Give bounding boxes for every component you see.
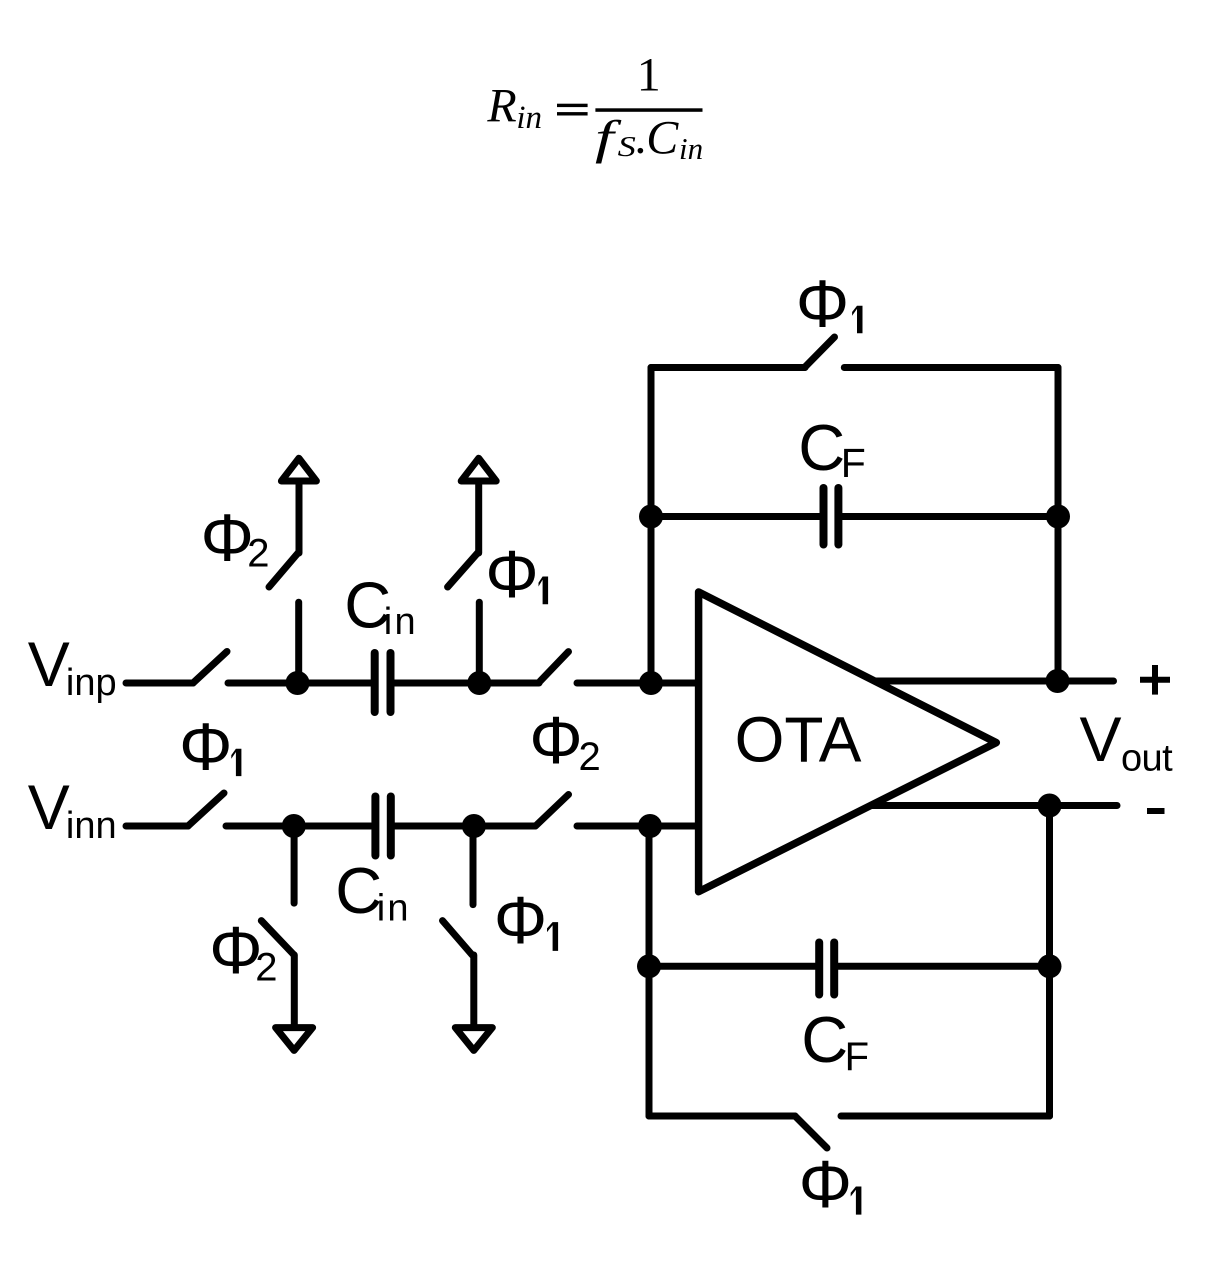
wire S4n to VCM symbol bbox=[470, 955, 477, 1025]
label phi2 (S2p) bbox=[529, 703, 600, 779]
svg-text:in: in bbox=[377, 888, 411, 930]
label phi1 (S4p) bbox=[485, 537, 548, 612]
svg-text:in: in bbox=[516, 100, 542, 136]
wire S2n to OTA input- bbox=[577, 823, 702, 830]
wire Cin to S2n bbox=[395, 823, 535, 830]
wire stub node E down bbox=[470, 826, 477, 905]
svg-text:in: in bbox=[384, 601, 418, 643]
VCM symbol (up arrow) left bbox=[281, 458, 316, 481]
svg-text:C: C bbox=[798, 411, 845, 484]
label phi1 (S1p) bbox=[179, 710, 241, 785]
wire CF bottom left vertical bbox=[646, 826, 653, 1116]
svg-text:F: F bbox=[841, 440, 866, 486]
node J (output- / CF) bbox=[1038, 794, 1062, 818]
node K (CF bottom left) bbox=[637, 954, 661, 978]
wire CF bottom cap rail right bbox=[838, 963, 1049, 970]
svg-text:Φ: Φ bbox=[796, 266, 849, 341]
svg-text:inp: inp bbox=[66, 662, 117, 704]
svg-text:Φ: Φ bbox=[529, 703, 582, 778]
label Vout bbox=[1080, 705, 1174, 780]
capacitor CF bottom bbox=[819, 943, 834, 995]
switch S1n blade (phi1) bbox=[188, 793, 224, 826]
switch S1p blade (phi1) bbox=[193, 652, 227, 684]
switch S2n blade (phi2) bbox=[536, 795, 569, 827]
wire stub node B up bbox=[476, 602, 483, 683]
svg-text:out: out bbox=[1121, 738, 1173, 780]
wire CF bottom rail right bbox=[841, 1113, 1050, 1120]
wire CF top right vertical bbox=[1055, 368, 1062, 682]
capacitor Cin bottom bbox=[375, 797, 390, 856]
svg-text:.: . bbox=[634, 111, 646, 164]
svg-text:V: V bbox=[28, 630, 70, 700]
switch S3n blade (phi2 to VCM) bbox=[261, 921, 294, 955]
switch S5n blade (phi1 reset bottom) bbox=[795, 1116, 827, 1148]
switch S4p blade (phi1 to VCM) bbox=[448, 553, 478, 587]
node F (OTA input bottom) bbox=[638, 814, 662, 838]
label Cin bottom bbox=[335, 854, 411, 930]
label CF bottom bbox=[801, 1003, 869, 1079]
svg-text:F: F bbox=[845, 1035, 869, 1079]
VCM symbol (down arrow) left bbox=[276, 1028, 313, 1051]
wire S3p to VCM symbol bbox=[296, 483, 303, 553]
wire Vinn lead bbox=[126, 823, 188, 830]
svg-text:OTA: OTA bbox=[735, 704, 862, 776]
node I (output+ / CF) bbox=[1046, 669, 1070, 693]
VCM symbol (up arrow) right bbox=[461, 458, 496, 481]
wire CF top rail left bbox=[651, 364, 805, 371]
svg-text:inn: inn bbox=[66, 805, 117, 847]
wire S1p to Cin bbox=[228, 680, 371, 687]
node G (CF top left) bbox=[639, 505, 663, 529]
label phi2 (S3p) bbox=[201, 501, 270, 576]
svg-text:Φ: Φ bbox=[799, 1147, 852, 1222]
svg-text:2: 2 bbox=[579, 735, 601, 779]
switch S5p blade (phi1 reset top) bbox=[805, 337, 835, 368]
switch S4n blade (phi1 to VCM) bbox=[443, 921, 473, 955]
label phi1 (S5n) bbox=[799, 1147, 862, 1222]
label Vinp bbox=[28, 630, 117, 704]
svg-text:2: 2 bbox=[255, 946, 277, 990]
wire OTA output+ bbox=[876, 678, 1114, 685]
node E (bottom right plate) bbox=[462, 814, 486, 838]
svg-text:C: C bbox=[801, 1003, 848, 1076]
wire stub node A up bbox=[295, 602, 302, 683]
svg-text:1: 1 bbox=[637, 49, 661, 102]
svg-text:V: V bbox=[28, 773, 70, 843]
svg-text:C: C bbox=[646, 111, 679, 164]
node H (CF top right) bbox=[1046, 505, 1070, 529]
svg-text:Φ: Φ bbox=[485, 537, 538, 612]
label Vinn bbox=[28, 773, 117, 847]
wire CF top cap rail right bbox=[843, 513, 1059, 520]
switch S2p blade (phi2) bbox=[540, 652, 569, 682]
capacitor Cin top bbox=[375, 653, 391, 712]
svg-text:R: R bbox=[486, 80, 516, 133]
node C (OTA input top) bbox=[639, 671, 663, 695]
label phi1 (S5p) bbox=[796, 266, 863, 341]
wire S2p to OTA input+ bbox=[577, 680, 702, 687]
wire CF bottom cap rail left bbox=[649, 963, 815, 970]
wire CF top cap rail left bbox=[651, 513, 820, 520]
node B (top right plate) bbox=[467, 671, 491, 695]
label + bbox=[1140, 665, 1170, 695]
svg-text:C: C bbox=[335, 854, 382, 927]
label CF top bbox=[798, 411, 865, 486]
wire CF top left vertical bbox=[648, 368, 655, 684]
wire CF top rail right bbox=[844, 364, 1058, 371]
wire CF bottom rail left bbox=[649, 1113, 795, 1120]
node A (top left plate) bbox=[286, 671, 310, 695]
svg-text:in: in bbox=[679, 131, 703, 166]
node L (CF bottom right) bbox=[1038, 954, 1062, 978]
svg-text:Φ: Φ bbox=[201, 501, 254, 576]
wire stub node D down bbox=[291, 826, 298, 903]
formula R_in = 1/(f_S.C_in) bbox=[486, 49, 703, 167]
VCM symbol (down arrow) right bbox=[455, 1028, 492, 1051]
wire CF bottom right vertical bbox=[1046, 806, 1053, 1117]
op-amp OTA bbox=[699, 592, 997, 892]
wire Cin to S2p bbox=[395, 680, 540, 687]
capacitor CF top bbox=[824, 488, 839, 545]
wire S3n to VCM symbol bbox=[291, 955, 298, 1025]
svg-text:Φ: Φ bbox=[179, 710, 232, 785]
switch S3p blade (phi2 to VCM) bbox=[269, 553, 298, 587]
svg-text:2: 2 bbox=[247, 532, 269, 576]
label Cin top bbox=[344, 569, 418, 644]
wire S4p to VCM symbol bbox=[475, 483, 482, 553]
label phi1 (S4n) bbox=[494, 883, 558, 958]
wire S1n to Cin bbox=[226, 823, 371, 830]
svg-text:S: S bbox=[618, 132, 636, 163]
svg-text:V: V bbox=[1080, 705, 1122, 775]
node D (bottom left plate) bbox=[282, 814, 306, 838]
label - bbox=[1147, 808, 1165, 814]
wire OTA output- bbox=[872, 802, 1117, 809]
svg-text:Φ: Φ bbox=[494, 883, 547, 958]
label phi2 (S3n) bbox=[209, 913, 277, 990]
wire Vinp lead bbox=[126, 680, 193, 687]
